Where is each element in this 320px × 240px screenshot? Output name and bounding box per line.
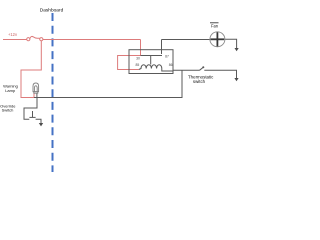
svg-text:85: 85: [136, 63, 140, 67]
svg-text:Fan: Fan: [211, 24, 219, 29]
svg-text:86: 86: [169, 63, 173, 67]
svg-text:switch: switch: [193, 79, 206, 84]
svg-text:Dashboard: Dashboard: [40, 8, 64, 14]
svg-text:+12v: +12v: [8, 32, 18, 37]
svg-text:87: 87: [165, 55, 169, 59]
svg-text:Lamp: Lamp: [5, 88, 16, 93]
svg-text:Switch: Switch: [2, 108, 14, 113]
svg-text:30: 30: [136, 56, 140, 60]
